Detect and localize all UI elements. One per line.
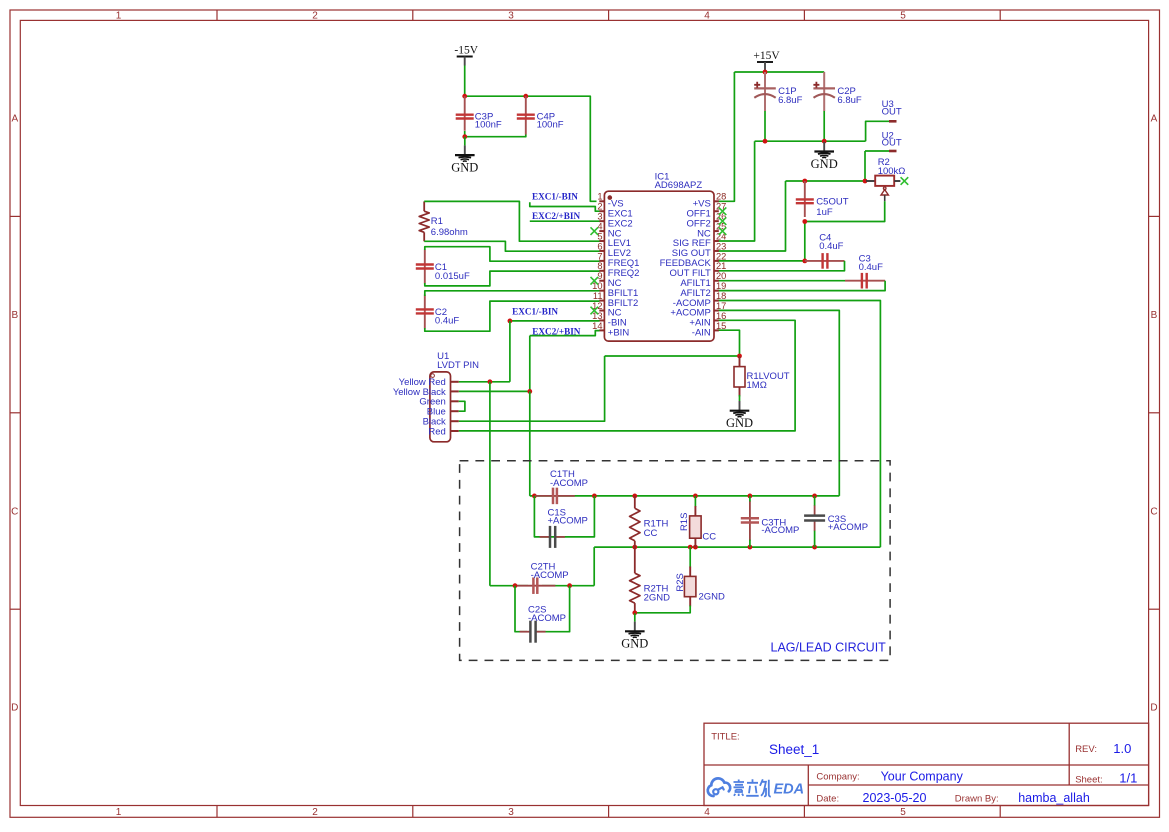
- svg-text:D: D: [1150, 703, 1157, 714]
- capacitor C1: [416, 250, 470, 284]
- svg-text:A: A: [11, 114, 18, 125]
- svg-text:-15V: -15V: [454, 44, 478, 56]
- pin 18 stub: [714, 291, 726, 301]
- lag/lead dashed box: [460, 461, 890, 661]
- wire FEEDBACK pin22 to C4: [717, 260, 805, 262]
- svg-text:1/1: 1/1: [1119, 770, 1137, 785]
- node R1LVOUT top: [737, 354, 742, 359]
- net label EXC1/-BIN at pin 13: [510, 307, 600, 321]
- svg-text:GND: GND: [726, 416, 753, 430]
- pin 16 stub: [714, 311, 726, 321]
- power flag +15V: [753, 50, 780, 71]
- U1 pin Red: [428, 426, 458, 437]
- wire C4 to OUT FILT pin21: [717, 261, 844, 271]
- svg-text:14: 14: [592, 321, 602, 331]
- power flag -15V: [454, 44, 478, 65]
- ground GND in lag box: [621, 622, 648, 651]
- node bus1 junction: [693, 494, 698, 499]
- U1 pin Green: [419, 397, 458, 408]
- wire C1 bottom to FREQ2 pin8: [425, 271, 600, 286]
- svg-text:4: 4: [597, 221, 602, 231]
- svg-text:3: 3: [597, 212, 602, 222]
- wire C4P bottom to C3P bottom: [465, 131, 526, 137]
- svg-text:10: 10: [592, 281, 602, 291]
- svg-text:hamba_allah: hamba_allah: [1018, 791, 1090, 805]
- EasyEDA logo: [708, 778, 804, 797]
- svg-text:EDA: EDA: [774, 782, 805, 798]
- pin 19 stub: [714, 281, 726, 291]
- svg-text:A: A: [1151, 114, 1158, 125]
- capacitor C3: [845, 254, 885, 289]
- capacitor C3TH: [741, 496, 800, 547]
- svg-text:GND: GND: [621, 637, 648, 651]
- svg-text:Company:: Company:: [816, 772, 859, 783]
- svg-text:2GND: 2GND: [644, 593, 671, 604]
- svg-text:GND: GND: [811, 157, 838, 171]
- svg-text:20: 20: [716, 271, 726, 281]
- pin 8 stub: [597, 261, 604, 271]
- svg-text:1: 1: [597, 192, 602, 202]
- pin 5 stub: [597, 231, 604, 241]
- svg-text:0.4uF: 0.4uF: [859, 262, 883, 273]
- svg-text:D: D: [11, 703, 18, 714]
- pin 12 stub: [592, 301, 604, 311]
- pin 1 stub: [597, 192, 604, 202]
- resistor R1S: [679, 496, 716, 547]
- svg-text:2: 2: [312, 807, 318, 818]
- svg-text:LVDT PIN: LVDT PIN: [437, 360, 479, 371]
- svg-text:-ACOMP: -ACOMP: [550, 478, 588, 489]
- capacitor C2TH: [515, 561, 568, 594]
- pin 14 stub: [592, 321, 604, 331]
- svg-text:17: 17: [716, 301, 726, 311]
- no-connect X pin 26: [719, 217, 727, 225]
- node +15V junction: [763, 70, 768, 75]
- U1 pin Yellow Black: [393, 387, 459, 398]
- svg-text:3: 3: [508, 11, 514, 22]
- resistor R2TH: [630, 547, 671, 613]
- svg-text:AD698APZ: AD698APZ: [655, 180, 703, 191]
- node bus1 junction: [632, 494, 637, 499]
- wire C2 bottom to BFILT2 pin11: [425, 301, 600, 331]
- wire C3 to AFILT2 pin19: [717, 281, 885, 291]
- svg-text:Red: Red: [428, 426, 445, 437]
- frame row letters right: [1150, 114, 1157, 714]
- node bus2 junction: [688, 545, 693, 550]
- node GND junction left: [462, 134, 467, 139]
- svg-text:OUT: OUT: [882, 138, 902, 149]
- svg-text:Your Company: Your Company: [881, 769, 964, 783]
- no-connect X pin 25: [719, 227, 727, 235]
- wire C1S branch: [534, 496, 594, 537]
- wire +ACOMP bus top: [530, 495, 840, 497]
- svg-text:15: 15: [716, 321, 726, 331]
- svg-text:9: 9: [597, 271, 602, 281]
- svg-text:B: B: [1151, 310, 1158, 321]
- pin 22 stub: [714, 251, 726, 261]
- wire +VS to pin 28: [717, 72, 734, 201]
- svg-text:19: 19: [716, 281, 726, 291]
- U1 pin Yellow Red: [399, 377, 459, 388]
- resistor R2S: [675, 547, 725, 611]
- wire U1 Green-Blue loop: [459, 401, 465, 411]
- svg-text:1: 1: [116, 11, 122, 22]
- wire U2 OUT to R2 node: [865, 151, 890, 181]
- potentiometer R2: [866, 157, 905, 201]
- resistor R1: [419, 201, 468, 241]
- svg-text:2GND: 2GND: [699, 592, 726, 603]
- wire -ACOMP bus bottom: [594, 546, 880, 548]
- wire R2 wiper to C5OUT bottom: [805, 201, 885, 261]
- wire C2 top to BFILT1 pin10: [425, 291, 600, 296]
- svg-text:2: 2: [312, 11, 318, 22]
- no-connect X pin 9: [591, 277, 599, 285]
- capacitor C1S: [540, 507, 588, 548]
- wire R1 bottom to LEV2 pin6: [424, 241, 599, 251]
- svg-text:23: 23: [716, 241, 726, 251]
- wire EXC2/+BIN down to U1 Yellow Black: [459, 336, 530, 392]
- svg-text:1MΩ: 1MΩ: [747, 380, 767, 391]
- node bus1 junction: [592, 494, 597, 499]
- frame column numbers bottom: [116, 807, 907, 818]
- svg-text:6.8uF: 6.8uF: [837, 95, 861, 106]
- capacitor C2: [416, 295, 460, 329]
- svg-text:REV:: REV:: [1075, 744, 1097, 755]
- svg-text:R1: R1: [431, 216, 443, 227]
- svg-text:0.4uF: 0.4uF: [819, 241, 843, 252]
- pin 24 stub: [714, 231, 726, 241]
- ground GND left: [451, 145, 478, 174]
- svg-text:100nF: 100nF: [475, 119, 502, 130]
- pin U3 OUT stub: [882, 99, 902, 121]
- pin 10 stub: [592, 281, 604, 291]
- node bus2 junction: [812, 545, 817, 550]
- svg-text:2: 2: [597, 202, 602, 212]
- svg-text:0.4uF: 0.4uF: [435, 316, 459, 327]
- ground GND center: [811, 142, 838, 171]
- U1 pin Blue: [427, 407, 459, 418]
- svg-text:CC: CC: [702, 532, 716, 543]
- no-connect X pin 4: [591, 227, 599, 235]
- wire Yellow Black net into lag box: [529, 391, 531, 496]
- capacitor C1P: [754, 72, 802, 111]
- node R2TH bottom: [632, 610, 637, 615]
- node R2 left terminal: [863, 179, 868, 184]
- node C2P bottom GND: [822, 139, 827, 144]
- pin 28 stub: [714, 192, 726, 202]
- wire R2S bottom to R2TH bottom: [635, 611, 690, 613]
- svg-text:3: 3: [508, 807, 514, 818]
- svg-text:TITLE:: TITLE:: [711, 731, 740, 742]
- svg-text:6: 6: [597, 241, 602, 251]
- wire C1P C2P bottoms to GND bus: [755, 111, 866, 141]
- node bus1 junction: [532, 494, 537, 499]
- svg-text:C: C: [11, 506, 18, 517]
- svg-text:Sheet_1: Sheet_1: [769, 742, 819, 757]
- node Yellow Red junction: [488, 379, 493, 384]
- svg-text:EXC1/-BIN: EXC1/-BIN: [512, 307, 558, 317]
- svg-text:EXC2/+BIN: EXC2/+BIN: [532, 211, 580, 221]
- capacitor C1TH: [535, 469, 588, 504]
- wire GND stub in lag box: [634, 613, 636, 621]
- wire +ACOMP pin17 to lag box: [717, 310, 839, 496]
- svg-text:13: 13: [592, 311, 602, 321]
- capacitor C4: [805, 232, 845, 268]
- pin 4 stub: [597, 221, 604, 231]
- svg-text:Date:: Date:: [816, 794, 839, 805]
- svg-text:100nF: 100nF: [537, 119, 564, 130]
- svg-text:OUT: OUT: [882, 107, 902, 118]
- svg-text:+15V: +15V: [753, 50, 780, 62]
- svg-text:18: 18: [716, 291, 726, 301]
- node -15V junction at C4P: [523, 94, 528, 99]
- pin 25 stub: [714, 221, 726, 231]
- net label EXC1/-BIN at pin 2: [530, 192, 600, 212]
- wire SIG OUT net to R2/C5OUT: [717, 181, 866, 251]
- pin 15 stub: [714, 321, 726, 331]
- node C1P bottom: [763, 139, 768, 144]
- svg-text:C: C: [1150, 506, 1157, 517]
- svg-text:-ACOMP: -ACOMP: [531, 570, 569, 581]
- node C5OUT top: [802, 179, 807, 184]
- pin 2 stub: [597, 202, 604, 212]
- svg-text:2023-05-20: 2023-05-20: [863, 791, 927, 805]
- svg-text:5: 5: [900, 807, 906, 818]
- connector U1 LVDT PIN body: [430, 351, 479, 442]
- pin 27 stub: [714, 202, 726, 212]
- svg-text:16: 16: [716, 311, 726, 321]
- wire Yellow Red net into lag box: [489, 382, 491, 586]
- pin 20 stub: [714, 271, 726, 281]
- wire AFILT1 pin20 to C3: [717, 280, 845, 282]
- node bus1 junction: [812, 494, 817, 499]
- wire GND stub under R1LVOUT: [739, 395, 741, 401]
- pin 9 stub: [597, 271, 604, 281]
- svg-text:R2S: R2S: [675, 573, 686, 591]
- wire +AIN pin16 to U1 Red: [459, 320, 795, 431]
- svg-text:-ACOMP: -ACOMP: [761, 525, 799, 536]
- pin 17 stub: [714, 301, 726, 311]
- capacitor C3P: [456, 96, 502, 131]
- wire -15V rail: [465, 66, 597, 202]
- node C2TH right: [567, 583, 572, 588]
- wire C2S branch: [515, 586, 570, 632]
- svg-text:100kΩ: 100kΩ: [878, 166, 906, 177]
- capacitor C4P: [517, 96, 564, 134]
- svg-text:7: 7: [597, 251, 602, 261]
- node EXC1/-BIN junction: [508, 319, 513, 324]
- svg-text:B: B: [11, 310, 18, 321]
- svg-text:1: 1: [116, 807, 122, 818]
- wire R1 top to LEV1 pin5: [424, 201, 599, 241]
- node FEEDBACK C4 junction: [802, 259, 807, 264]
- svg-text:8: 8: [597, 261, 602, 271]
- svg-text:GND: GND: [451, 160, 478, 174]
- pin U2 OUT stub: [882, 130, 902, 151]
- pin 26 stub: [714, 212, 726, 222]
- svg-text:1uF: 1uF: [816, 207, 833, 218]
- pin 3 stub: [597, 212, 604, 222]
- title block frame: [704, 723, 1149, 805]
- svg-text:CC: CC: [644, 528, 658, 539]
- svg-text:6.8uF: 6.8uF: [778, 95, 802, 106]
- node bus1 junction: [748, 494, 753, 499]
- node bus2 junction: [693, 545, 698, 550]
- wire C1 top to FREQ1 pin7: [425, 247, 600, 262]
- svg-text:22: 22: [716, 251, 726, 261]
- wire -ACOMP pin18 to lag box: [717, 301, 880, 548]
- pin 23 stub: [714, 241, 726, 251]
- svg-text:EXC1/-BIN: EXC1/-BIN: [532, 192, 578, 202]
- svg-text:4: 4: [704, 807, 710, 818]
- wire -AIN pin15 to R1LVOUT and U1 Black: [459, 330, 740, 421]
- wire C2TH row: [490, 547, 594, 586]
- svg-text:0.015uF: 0.015uF: [435, 271, 470, 282]
- svg-text:5: 5: [597, 231, 602, 241]
- op-amp U1 -- IC1 AD698APZ body: [604, 172, 714, 341]
- svg-text:+ACOMP: +ACOMP: [828, 522, 868, 533]
- node Yellow Black junction: [527, 389, 532, 394]
- no-connect X pin 12: [591, 307, 599, 315]
- svg-text:+BIN: +BIN: [608, 328, 630, 339]
- node -15V junction at C3P: [462, 94, 467, 99]
- wire EXC1/-BIN down to U1 Yellow Red: [459, 321, 510, 382]
- frame row letters left: [11, 114, 18, 714]
- svg-text:Sheet:: Sheet:: [1075, 774, 1102, 785]
- node bus2 junction: [632, 545, 637, 550]
- net label EXC2/+BIN at pin 14: [530, 327, 600, 337]
- node C2TH left: [513, 583, 518, 588]
- svg-text:6.98ohm: 6.98ohm: [431, 227, 468, 238]
- pin 7 stub: [597, 251, 604, 261]
- svg-text:28: 28: [716, 192, 726, 202]
- U1 pin Black: [423, 417, 459, 428]
- frame column numbers top: [116, 11, 907, 22]
- wire U3 OUT: [866, 121, 890, 141]
- svg-text:LAG/LEAD CIRCUIT: LAG/LEAD CIRCUIT: [771, 640, 887, 654]
- pin 13 stub: [592, 311, 604, 321]
- capacitor C2P: [813, 72, 861, 111]
- no-connect X pin 27: [719, 207, 727, 215]
- node C5OUT bottom: [802, 219, 807, 224]
- no-connect X on R2 right: [901, 177, 909, 185]
- pin 11 stub: [593, 291, 605, 301]
- capacitor C5OUT: [796, 181, 849, 218]
- wire SIG REF to GND bus: [717, 141, 754, 241]
- wire +15V rail: [734, 70, 824, 72]
- ground GND under R1LVOUT: [726, 401, 753, 430]
- svg-text:-AIN: -AIN: [692, 328, 711, 339]
- svg-text:R1S: R1S: [679, 513, 690, 531]
- svg-text:5: 5: [900, 11, 906, 22]
- svg-text:Drawn By:: Drawn By:: [955, 794, 999, 805]
- svg-text:11: 11: [593, 291, 603, 301]
- resistor R1LVOUT: [734, 356, 790, 397]
- node bus2 junction: [748, 545, 753, 550]
- net label EXC2/+BIN at pin 3: [530, 211, 600, 221]
- pin 6 stub: [597, 241, 604, 251]
- pin 21 stub: [714, 261, 726, 271]
- svg-text:1.0: 1.0: [1113, 741, 1131, 756]
- wire GND stub left: [464, 137, 466, 146]
- capacitor C2S: [520, 604, 566, 642]
- svg-text:+ACOMP: +ACOMP: [548, 515, 588, 526]
- svg-text:4: 4: [704, 11, 710, 22]
- svg-text:-ACOMP: -ACOMP: [528, 613, 566, 624]
- svg-text:21: 21: [716, 261, 726, 271]
- resistor R1TH: [630, 496, 669, 547]
- capacitor C3S: [804, 496, 868, 547]
